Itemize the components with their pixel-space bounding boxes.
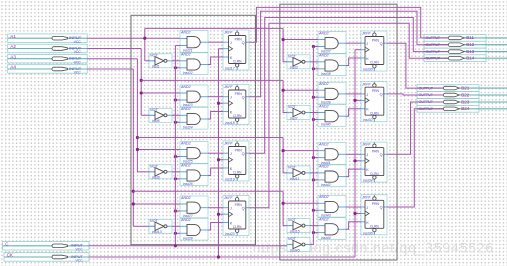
svg-text:inst26: inst26: [183, 182, 193, 186]
wire clock stub left cell 3: [219, 159, 224, 161]
wire AND-K to K input right cell 2: [346, 109, 361, 117]
wire A4 feed to right bank: [133, 190, 283, 192]
svg-text:NOT: NOT: [150, 219, 158, 223]
wire C stub right cell 4 K-gate: [313, 232, 318, 234]
svg-text:J: J: [366, 93, 368, 97]
svg-text:JKFF: JKFF: [361, 82, 371, 86]
and-gate inst24 (left cell 2 K): [180, 107, 208, 129]
junction C tap right 3a: [312, 156, 315, 159]
svg-text:CLRN: CLRN: [370, 172, 379, 176]
svg-text:inst13: inst13: [152, 230, 162, 234]
input pin A3: [8, 54, 88, 64]
jk flip-flop inst20 (left cell 4): [223, 196, 249, 237]
svg-text:inst17: inst17: [225, 67, 236, 71]
svg-text:B22: B22: [461, 92, 470, 97]
junction right A1: [282, 38, 285, 41]
svg-text:CLRN: CLRN: [233, 171, 242, 175]
left block frame: [131, 15, 256, 244]
watermark text: [253, 240, 494, 256]
svg-text:inst7: inst7: [290, 116, 299, 120]
svg-text:VCC: VCC: [76, 247, 84, 251]
svg-text:J: J: [366, 206, 368, 210]
and-gate inst21 (left cell 1 J): [180, 30, 208, 52]
wire clock stub left cell 4: [219, 213, 224, 215]
svg-text:B11: B11: [466, 35, 474, 40]
junction CK tap right 2: [353, 99, 356, 102]
svg-text:AND2: AND2: [318, 31, 329, 35]
wire A3 pin to column: [87, 58, 137, 60]
and-gate inst44 (right cell 4 K): [318, 217, 346, 239]
wire C stub left cell 3 J-gate: [175, 156, 180, 158]
junction C tap right 3b: [312, 178, 315, 181]
output pin B23: [417, 99, 507, 106]
svg-text:AND2: AND2: [180, 164, 191, 168]
svg-text:JKFF: JKFF: [361, 143, 371, 147]
wire A1 drop to NOT inst1: [145, 38, 149, 61]
not-gate inst1 (U1 left): [149, 53, 172, 68]
svg-text:A4: A4: [10, 65, 16, 70]
svg-text:JKFF: JKFF: [223, 85, 233, 89]
wire CK riser right: [354, 50, 356, 257]
svg-text:NOT: NOT: [150, 108, 158, 112]
svg-text:Q: Q: [242, 206, 245, 210]
input pin CK: [4, 253, 89, 263]
svg-text:VCC: VCC: [74, 71, 82, 75]
wire NOT to AND-K left cell 2: [172, 114, 180, 116]
svg-text:AND2: AND2: [180, 141, 191, 145]
and-gate inst42 (right cell 3 K): [318, 165, 346, 187]
input pin A1: [8, 34, 88, 44]
wire right stub to AND A4: [283, 202, 318, 204]
wire A1 riser to feed row: [144, 28, 146, 38]
svg-text:Q: Q: [380, 42, 383, 46]
svg-text:CLRN: CLRN: [233, 114, 242, 118]
wire Q1 left to B11: [249, 7, 449, 42]
wire C stub left cell 4 J-gate: [175, 210, 180, 212]
output pin B24: [417, 105, 507, 112]
wire CK riser left: [218, 49, 220, 257]
jk flip-flop inst19 (left cell 3): [223, 141, 249, 182]
svg-text:inst30: inst30: [363, 68, 373, 72]
wire AND-J to J input left cell 2: [208, 96, 223, 98]
wire C stub left cell 1 K-gate: [175, 67, 180, 69]
svg-text:B24: B24: [461, 106, 470, 111]
wire C input net: [89, 245, 287, 247]
wire NOT to AND-K right cell 3: [310, 172, 318, 174]
wire C stub right cell 4 J-gate: [313, 209, 318, 211]
wire C-inverted riser right: [310, 47, 313, 245]
jk flip-flop inst30 (right cell 1): [361, 31, 387, 72]
not-gate inst15 (right cell 4): [287, 218, 310, 233]
svg-text:J: J: [230, 96, 232, 100]
wire C stub right cell 1 J-gate: [313, 46, 318, 48]
wire A4 stub to AND gate: [133, 203, 180, 205]
junction C tap right 2a: [312, 96, 315, 99]
output pin B12: [424, 41, 507, 48]
wire A3 feed to right bank: [137, 137, 283, 139]
wire right stub to AND A3: [283, 150, 318, 152]
wire right column A4: [283, 191, 287, 225]
output pin B22: [417, 92, 507, 99]
wire C stub right cell 3 K-gate: [313, 179, 318, 181]
wire C riser left: [174, 46, 176, 246]
wire AND-J to J input left cell 1: [208, 41, 223, 43]
junction C tap left 2b: [174, 121, 177, 124]
svg-text:inst38: inst38: [321, 72, 331, 76]
svg-text:AND2: AND2: [180, 218, 191, 222]
svg-text:NOT: NOT: [150, 53, 158, 57]
svg-text:inst19: inst19: [225, 178, 235, 182]
svg-text:NOT: NOT: [288, 166, 296, 170]
wire A2 pin to column: [87, 48, 141, 50]
svg-text:CLRN: CLRN: [370, 61, 379, 65]
wire right stub to AND A2: [283, 89, 318, 91]
svg-text:inst45: inst45: [290, 248, 300, 252]
output pin B21: [417, 85, 507, 92]
svg-text:AND2: AND2: [180, 53, 191, 57]
and-gate inst39 (right cell 2 J): [318, 82, 346, 104]
wire A1 feed to right bank: [145, 27, 283, 29]
svg-text:JKFF: JKFF: [361, 195, 371, 199]
wire Q3 right to B23: [387, 102, 444, 154]
junction C tap right 2b: [312, 118, 315, 121]
junction CK riser base: [217, 255, 220, 258]
and-gate inst25 (left cell 3 J): [180, 141, 208, 163]
svg-text:A3: A3: [10, 54, 16, 59]
jk flip-flop inst17 (left cell 1): [223, 30, 249, 71]
svg-text:B13: B13: [466, 49, 475, 54]
junction A3 feed tap: [136, 136, 139, 139]
junction C tap left 3b: [174, 177, 177, 180]
svg-text:CLRN: CLRN: [233, 60, 242, 64]
wire right column A1: [283, 28, 287, 61]
and-gate inst26 (left cell 3 K): [180, 164, 208, 186]
not-gate inst7 (right cell 2): [287, 105, 310, 120]
wire AND-J to J input right cell 2: [346, 93, 361, 95]
svg-text:CLRN: CLRN: [233, 225, 242, 229]
svg-text:A2: A2: [10, 44, 16, 49]
wire clock stub right cell 4: [355, 213, 361, 215]
junction C tap left 3a: [174, 155, 177, 158]
and-gate inst23 (left cell 2 J): [180, 85, 208, 107]
junction C riser base: [174, 244, 177, 247]
wire right stub to AND A1: [283, 39, 318, 41]
svg-text:AND2: AND2: [318, 195, 329, 199]
svg-text:NOT: NOT: [288, 54, 296, 58]
wire NOT to AND-K right cell 1: [310, 61, 318, 63]
input pin A2: [8, 44, 88, 54]
svg-text:A1: A1: [10, 34, 16, 39]
wire clock stub left cell 1: [219, 48, 224, 50]
svg-text:PRN: PRN: [372, 150, 380, 154]
not-gate inst11 (right cell 3): [287, 166, 310, 181]
wire NOT to AND-K left cell 4: [172, 225, 180, 227]
junction right A2: [282, 89, 285, 92]
junction A1 node: [143, 37, 146, 40]
svg-text:inst20: inst20: [225, 232, 235, 236]
svg-text:Q: Q: [242, 41, 245, 45]
svg-text:PRN: PRN: [372, 89, 380, 93]
svg-text:AND2: AND2: [180, 196, 191, 200]
and-gate inst22 (left cell 1 K): [180, 53, 208, 75]
wire A3 stub to AND gate: [137, 149, 180, 151]
and-gate inst38 (right cell 1 K): [318, 54, 346, 76]
junction A2 and tap: [140, 91, 143, 94]
svg-text:PRN: PRN: [372, 202, 380, 206]
svg-text:inst40: inst40: [321, 123, 331, 127]
wire Q4 left to B14: [249, 23, 449, 207]
wire NOT to AND-K left cell 1: [172, 60, 180, 62]
svg-text:J: J: [230, 152, 232, 156]
wire clock stub left cell 2: [219, 102, 224, 104]
junction right A4: [282, 202, 285, 205]
svg-text:JKFF: JKFF: [361, 32, 371, 36]
wire A2 stub to AND gate: [141, 92, 180, 94]
svg-text:B23: B23: [461, 99, 470, 104]
svg-text:VCC: VCC: [76, 259, 84, 263]
svg-text:J: J: [230, 41, 232, 45]
svg-text:J: J: [366, 42, 368, 46]
junction C tap left 4b: [174, 232, 177, 235]
svg-text:CLRN: CLRN: [370, 225, 379, 229]
wire A3 column drop: [137, 59, 149, 172]
svg-text:inst24: inst24: [183, 126, 193, 130]
wire AND-K to K input left cell 4: [208, 223, 223, 231]
svg-text:AND2: AND2: [318, 54, 329, 58]
svg-text:J: J: [230, 207, 232, 211]
wire AND-K to K input left cell 2: [208, 112, 223, 120]
wire AND-J to J input right cell 3: [346, 153, 361, 155]
wire A2 column drop: [141, 49, 149, 116]
junction CK tap left 3: [217, 158, 220, 161]
svg-text:inst11: inst11: [290, 177, 299, 181]
wire clock stub right cell 1: [355, 49, 361, 51]
svg-text:VCC: VCC: [74, 50, 82, 54]
svg-text:B14: B14: [466, 56, 475, 61]
svg-text:inst28: inst28: [183, 237, 193, 241]
svg-text:AND2: AND2: [180, 107, 191, 111]
wire Q2 left to B12: [249, 11, 449, 97]
wire AND-K to K input right cell 3: [346, 169, 361, 177]
input pin A4: [8, 65, 88, 75]
wire C stub right cell 3 J-gate: [313, 157, 318, 159]
junction C tap left 2a: [174, 98, 177, 101]
svg-text:inst22: inst22: [183, 71, 193, 75]
wire C stub left cell 2 J-gate: [175, 99, 180, 101]
wire right column A2: [283, 80, 287, 112]
and-gate inst28 (left cell 4 K): [180, 218, 208, 240]
wire C stub right cell 2 K-gate: [313, 119, 318, 121]
svg-text:inst42: inst42: [321, 183, 331, 187]
svg-text:inst36: inst36: [363, 231, 373, 235]
wire Q4 right to B24: [387, 109, 444, 207]
junction C tap right 1a: [312, 45, 315, 48]
junction A2 feed tap: [140, 79, 143, 82]
wire AND-K to K input right cell 1: [346, 58, 361, 66]
svg-text:CLRN: CLRN: [370, 111, 379, 115]
junction C tap left 4a: [174, 209, 177, 212]
svg-text:JKFF: JKFF: [223, 31, 233, 35]
wire AND-K to K input right cell 4: [346, 222, 361, 230]
svg-text:Q: Q: [242, 95, 245, 99]
wire NOT to AND-K right cell 4: [310, 225, 318, 227]
svg-text:inst3: inst3: [290, 66, 298, 70]
output pin B13: [424, 48, 507, 55]
wire clock stub right cell 3: [355, 160, 361, 162]
and-gate inst41 (right cell 3 J): [318, 142, 346, 164]
not-gate inst3 (right cell 1): [287, 54, 310, 69]
and-gate inst43 (right cell 4 J): [318, 195, 346, 217]
svg-text:NOT: NOT: [288, 237, 296, 241]
svg-text:B12: B12: [466, 42, 475, 47]
svg-text:inst44: inst44: [321, 236, 331, 240]
svg-text:Q: Q: [380, 206, 383, 210]
wire CK input net: [89, 256, 355, 258]
svg-text:AND2: AND2: [318, 217, 329, 221]
wire AND-K to K input left cell 3: [208, 168, 223, 176]
jk flip-flop inst18 (left cell 2): [223, 85, 249, 126]
not-gate inst5 (U2 left): [149, 108, 172, 123]
and-gate inst27 (left cell 4 J): [180, 196, 208, 218]
wire Q3 left to B13: [249, 18, 449, 154]
svg-text:inst9: inst9: [152, 176, 160, 180]
wire C stub left cell 4 K-gate: [175, 232, 180, 234]
svg-text:AND2: AND2: [180, 30, 191, 34]
junction right A3: [282, 149, 285, 152]
wire AND-K to K input left cell 1: [208, 57, 223, 65]
wire AND-J to J input left cell 3: [208, 152, 223, 154]
svg-text:JKFF: JKFF: [223, 196, 233, 200]
jk flip-flop inst32 (right cell 2): [361, 82, 387, 123]
junction C tap right 4b: [312, 231, 315, 234]
wire AND-J to J input right cell 1: [346, 42, 361, 44]
not-gate inst45 (C inverter): [287, 237, 310, 252]
junction A4 and tap: [132, 202, 135, 205]
wire NOT to AND-K left cell 3: [172, 171, 180, 173]
jk flip-flop inst36 (right cell 4): [361, 195, 387, 236]
junction C tap right 4a: [312, 209, 315, 212]
svg-text:J: J: [366, 153, 368, 157]
svg-text:AND2: AND2: [318, 82, 329, 86]
wire C stub left cell 3 K-gate: [175, 178, 180, 180]
junction C tap right 1b: [312, 67, 315, 70]
junction CK tap right 4: [353, 212, 356, 215]
svg-text:NOT: NOT: [288, 218, 296, 222]
wire C stub right cell 1 K-gate: [313, 68, 318, 70]
junction A4 feed tap: [132, 190, 135, 193]
right block frame: [280, 4, 397, 260]
wire Q2 right to B22: [387, 94, 444, 95]
wire C stub left cell 1 J-gate: [175, 45, 180, 47]
svg-text:Q: Q: [380, 93, 383, 97]
svg-text:JKFF: JKFF: [223, 142, 233, 146]
jk flip-flop inst34 (right cell 3): [361, 142, 387, 183]
and-gate inst40 (right cell 2 K): [318, 104, 346, 126]
wire AND-J to J input right cell 4: [346, 206, 361, 208]
output pin B11: [424, 35, 507, 42]
svg-text:Q: Q: [380, 153, 383, 157]
not-gate inst9 (U3 left): [149, 164, 172, 179]
svg-text:CK: CK: [7, 253, 14, 258]
svg-text:VCC: VCC: [74, 60, 82, 64]
junction CK tap right 3: [353, 159, 356, 162]
svg-text:inst34: inst34: [363, 179, 373, 183]
wire AND-J to J input left cell 4: [208, 207, 223, 209]
svg-text:AND2: AND2: [318, 165, 329, 169]
svg-text:inst18: inst18: [225, 121, 235, 125]
wire A1 pin to AND inst21 input: [87, 37, 180, 39]
wire NOT to AND-K right cell 2: [310, 112, 318, 114]
svg-text:inst32: inst32: [363, 118, 373, 122]
wire Q1 right to B21: [387, 43, 444, 88]
wire A4 pin to column: [87, 68, 133, 70]
input pin C: [3, 241, 90, 251]
not-gate inst13 (U4 left): [149, 219, 172, 234]
svg-text:Q: Q: [242, 152, 245, 156]
svg-text:AND2: AND2: [318, 142, 329, 146]
wire A2 feed to right bank: [141, 79, 283, 81]
and-gate inst37 (right cell 1 J): [318, 31, 346, 53]
svg-text:inst5: inst5: [152, 119, 160, 123]
svg-text:B21: B21: [461, 85, 470, 90]
svg-text:inst1: inst1: [152, 65, 160, 69]
svg-text:PRN: PRN: [372, 38, 380, 42]
junction CK tap left 4: [217, 213, 220, 216]
svg-text:NOT: NOT: [150, 164, 158, 168]
junction CK tap left 2: [217, 102, 220, 105]
wire clock stub right cell 2: [355, 99, 361, 101]
wire right column A3: [283, 138, 287, 173]
wire C stub right cell 2 J-gate: [313, 96, 318, 98]
output pin B14: [424, 55, 507, 62]
svg-text:NOT: NOT: [288, 105, 296, 109]
wire A4 column drop: [133, 69, 149, 226]
svg-text:AND2: AND2: [318, 104, 329, 108]
wire C stub left cell 2 K-gate: [175, 121, 180, 123]
svg-text:inst15: inst15: [290, 230, 300, 234]
svg-text:AND2: AND2: [180, 85, 191, 89]
svg-text:VCC: VCC: [74, 40, 82, 44]
junction C tap left 1b: [174, 66, 177, 69]
junction A3 and tap: [136, 148, 139, 151]
